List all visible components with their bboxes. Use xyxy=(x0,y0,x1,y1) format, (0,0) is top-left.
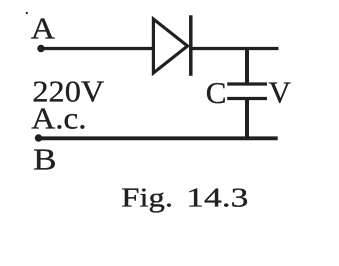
svg-text:A.c.: A.c. xyxy=(31,101,86,136)
speck artifact xyxy=(26,12,28,14)
svg-text:C: C xyxy=(206,75,227,110)
svg-text:14.3: 14.3 xyxy=(186,183,248,213)
wire A to diode anode xyxy=(41,47,153,50)
wire capacitor bottom plate to bottom rail xyxy=(245,99,249,140)
bottom wire B to right end xyxy=(39,136,278,140)
svg-text:Fig.: Fig. xyxy=(121,183,173,213)
svg-text:V: V xyxy=(269,75,292,110)
svg-text:A: A xyxy=(31,11,56,46)
wire junction down to capacitor top plate xyxy=(245,49,249,85)
diode D1 triangle (anode) xyxy=(153,19,187,73)
svg-text:B: B xyxy=(33,141,56,176)
wire diode cathode to right end xyxy=(191,47,279,50)
capacitor C top plate xyxy=(227,82,267,85)
node B terminal dot xyxy=(35,134,42,141)
diode D1 cathode bar xyxy=(189,15,193,76)
node A terminal dot xyxy=(37,45,44,52)
capacitor C bottom plate xyxy=(227,97,267,100)
